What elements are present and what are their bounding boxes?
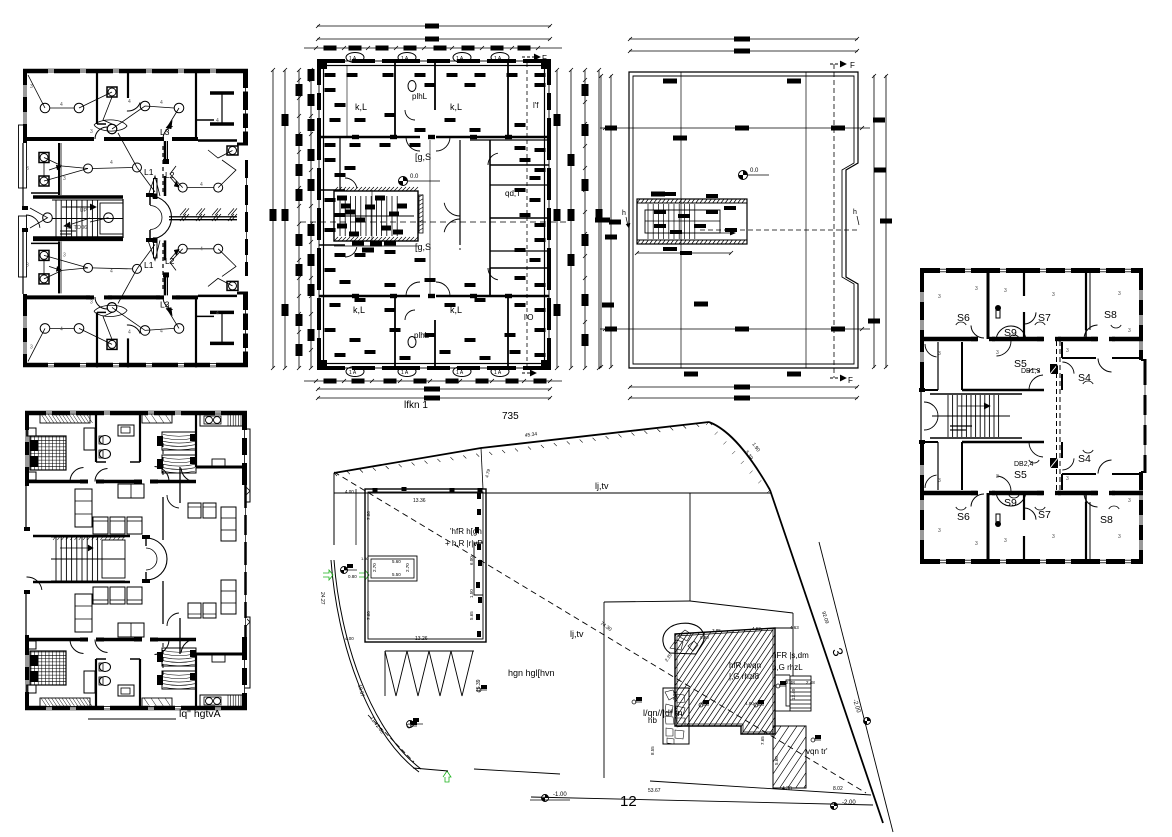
caption underline [88,718,176,720]
stairs plan C treads [648,204,695,239]
site boundary top-right curve [709,422,770,490]
stair mid rail [52,218,123,220]
door arc S5 entry [1029,442,1043,457]
svg-text:1 A: 1 A [456,370,464,376]
top dimension lines plan C [629,38,858,40]
S5 room walls [961,442,963,490]
wall: right connector lower [237,292,248,295]
benchmark right road [864,718,871,725]
landing double lines [60,230,76,232]
stairs plan B enclosure [334,191,418,241]
balcony right lower plan E [245,617,250,688]
wardrobe bed2 room [142,698,172,707]
svg-text:3: 3 [1118,291,1121,297]
door arc S4 [1098,460,1112,474]
door arc right room entry [163,297,173,310]
wire to hall [118,269,137,304]
wall: band horizontal thick lower [920,491,978,496]
top band lights [40,324,50,334]
entry jambs [919,388,925,392]
stair flight borders [52,199,123,201]
svg-text:3: 3 [63,176,66,182]
wall: right rooms mid [490,164,549,166]
wall: corridor horizontal mid-left [319,189,345,191]
svg-text:3: 3 [63,252,66,258]
stair treads plan D [948,395,999,437]
wall: plan A left middle balcony [22,143,24,209]
entry lobby wires [30,208,48,228]
svg-text:3: 3 [1128,498,1131,504]
right rooms wiring [187,187,214,189]
svg-text:S4: S4 [1078,453,1091,465]
A-mark right wall lower [246,618,250,626]
wall: horizontal main upper [25,480,84,484]
svg-text:2.48: 2.48 [806,680,815,685]
mushroom entry lobby center [150,196,172,239]
wall: plan D left entry thin [920,390,922,442]
right apt sofa at wall [221,580,236,614]
L2 wire arrow [170,252,176,259]
svg-text:1 A: 1 A [456,56,464,62]
wall: plan D outer left lower [920,442,924,564]
svg-text:|,G rhzl8: |,G rhzl8 [729,672,760,681]
bath furniture: vanity [84,428,95,450]
left small room mid [920,441,938,443]
living: L-sofa left [75,489,92,527]
svg-text:3: 3 [1052,292,1055,298]
svg-text:3: 3 [1128,328,1131,334]
wall: plan E outer right lower [242,637,247,710]
far right small fixture [227,146,238,155]
svg-text:nFR |s,dm: nFR |s,dm [772,651,809,660]
svg-text:UP: UP [80,208,88,214]
green arrow left 2 [359,570,369,580]
window ellipses above top wall [346,53,364,63]
door arc S7 [1024,508,1036,520]
door arc bath [95,297,107,309]
door arc S6 [971,494,984,507]
bottom small line left [413,768,448,771]
arrow into balcony [49,266,58,269]
site boundary right road edge thick [770,490,804,590]
svg-text:4.30: 4.30 [782,786,792,792]
svg-text:53.67: 53.67 [648,788,661,794]
svg-text:F: F [850,61,855,70]
bedside tables [27,685,36,693]
wall: right apt horizontal [196,466,247,469]
left dimension lines [272,70,274,368]
window slits left upper [25,430,29,442]
black jamb right hall [163,272,169,277]
wall: plan B outer [319,61,549,368]
DB distribution box [1050,458,1058,468]
svg-text:1 A: 1 A [401,370,409,376]
bed pillows black [30,655,38,666]
partition S6|S9 [987,268,990,339]
svg-text:3: 3 [26,262,29,268]
svg-text:1 A: 1 A [349,56,357,62]
svg-text:[g,S: [g,S [415,242,431,252]
wiring squares middle-left [39,153,49,163]
svg-text:4: 4 [216,118,219,124]
kitchen counter [200,414,243,426]
right apartment hall wall vertical [164,276,167,295]
svg-text:4: 4 [160,328,163,334]
right apt: dining chairs 2x2 [188,503,201,518]
partition bedroom2|right rooms [195,297,197,367]
svg-text:7.60: 7.60 [366,611,371,620]
wall: plan A outer right lower [243,292,248,367]
door arc S9 pair (mushroom down) [996,326,1026,341]
stair enclosure side [122,199,124,238]
stairs plan B treads [340,196,397,236]
left entry arc plan E [27,577,42,590]
svg-text:plhL: plhL [412,92,428,101]
benchmark symbol 0.0 [399,177,408,186]
wall: interior horizontal lower [319,295,420,298]
bottom dimension line 1 [317,388,551,390]
stairs plan C inner walls [645,210,720,233]
stair hall bottom wall [33,236,123,240]
svg-text:F: F [848,376,853,385]
stairs plan C enclosure [637,199,747,244]
svg-text:4: 4 [200,246,203,252]
grid blobs [663,79,677,84]
bath wiring loop [94,120,127,131]
bed pillows black [30,440,38,451]
toilet fixtures [408,81,416,92]
svg-text:1 A: 1 A [494,370,502,376]
light circles middle band [84,164,93,173]
door arc S4 inner [1062,362,1074,374]
partition bath|bedroom2 [127,338,129,367]
jambs on main wall [80,480,88,484]
L1 wires fan [148,176,160,196]
svg-text:5.65: 5.65 [469,611,474,620]
svg-text:2.29: 2.29 [672,691,677,700]
right dim blobs [554,114,561,126]
door arc S9 pair (mushroom down) [996,491,1026,506]
top dimension line 1 [317,25,551,27]
right apt: dining chairs 2x2 [188,603,201,618]
grid line vertical 1 [680,72,682,368]
svg-text:5.60: 5.60 [392,559,401,564]
wall: band horizontal thick upper [920,337,978,342]
benchmark symbol 0.0 plan C [739,171,748,180]
left dim blobs plan C [598,218,610,223]
svg-text:hgn hgl[hvn: hgn hgl[hvn [508,668,555,678]
mushroom inner arcs [150,206,162,218]
svg-text:3.85: 3.85 [712,628,721,633]
single beds hatched [162,671,196,689]
svg-text:S9: S9 [1004,327,1017,339]
svg-text:lj,tv: lj,tv [570,629,584,639]
leader arrows with hooks [956,322,966,325]
wall: plan C outline outer [629,72,858,368]
partition bed2|kitchen [195,654,197,710]
stair left lobby curve [924,402,938,416]
living: seat row of 3 [93,517,108,534]
right room divider [196,119,214,121]
svg-text:3: 3 [938,351,941,357]
svg-text:1 A: 1 A [494,56,502,62]
window slits plan B outer [345,59,352,63]
bath furniture: vanity [84,671,95,693]
svg-text:4: 4 [60,102,63,108]
right apt small table [212,654,225,662]
stairs right hatch strip [419,195,423,233]
partition bath|bed2 [139,411,141,462]
grid line horizontal 2 [600,328,870,330]
F marker top right plan C [830,63,840,65]
stair mid rail plan E [51,558,125,560]
S4 horizontal wall [1062,357,1096,359]
construction thin verticals [346,65,348,137]
wires from squares to lights [44,268,88,279]
building dim marks right side [477,493,481,499]
wall: stair hall top [33,195,123,199]
svg-text:0.90: 0.90 [700,635,709,640]
svg-text:S9: S9 [1004,497,1017,509]
S4 corridor wall vertical [1061,474,1063,490]
stair treads plan E [56,537,98,581]
sink counter bath [118,685,134,696]
wall: stair hall top [33,238,123,242]
right rooms lights [178,244,187,253]
wall: plan B outer inner face [324,66,545,364]
right rooms lights [178,183,187,192]
svg-text:L2 TO06: L2 TO06 [66,225,87,231]
corridor door arc right apt [167,495,179,508]
svg-text:L1: L1 [144,167,154,177]
second dashed short [368,715,414,762]
partition bedroom|bath [95,411,97,462]
stairs plan B black bits [337,196,347,201]
left entry jambs [24,527,30,531]
svg-text:12: 12 [620,793,637,810]
svg-text:2.70: 2.70 [405,563,410,572]
svg-text:'hfR h[gn: 'hfR h[gn [450,527,482,536]
right building lower hatched strip [773,726,806,788]
black jamb right hall [163,159,169,164]
left balcony box upper [19,125,27,188]
wall: plan D outer left upper [920,268,924,390]
svg-text:13.26: 13.26 [415,636,428,642]
wardrobe I-symbol right room [210,342,234,346]
wire hall diagonal [137,168,155,193]
door arc right room entry [163,126,173,139]
wires from squares to lights [44,158,88,169]
wall: top rooms divider right [507,61,509,137]
svg-text:0.0: 0.0 [410,174,419,180]
bedroom door arcs [70,640,84,654]
svg-text:3: 3 [996,474,999,480]
toilet ellipses [100,436,111,445]
hall walls around stairs [33,535,130,538]
interior blob mid [706,194,718,198]
A-mark right wall upper [246,487,250,495]
living: seat row of 3 [93,587,108,604]
mid lot subdivision lines [689,493,691,601]
dashed axis horizontal through stairs [700,229,860,231]
bottom dim blob row [304,380,562,382]
door arc bedroom2 [127,102,140,111]
dashed section line right [526,63,528,366]
svg-text:7.86: 7.86 [366,511,371,520]
site boundary left vertical [333,473,335,545]
wall: plan D outer right upper [1139,268,1143,360]
top dimension line 2 [317,38,551,40]
door arc S7 [1024,312,1036,324]
svg-text:vqn tr': vqn tr' [806,747,828,756]
wall: plan A outer top [23,69,248,74]
svg-text:[g,S: [g,S [415,152,431,162]
svg-text:4.80: 4.80 [745,701,754,706]
stair = sign [950,425,972,427]
door arc S8 [1084,325,1098,339]
interior blob top-left [651,192,665,197]
svg-text:L1: L1 [144,260,154,270]
wall: interior horizontal upper (below k,L rooms) [319,136,420,139]
corridor door arc right apt [167,613,179,626]
top dim blob row [324,46,337,51]
svg-text:4.62: 4.62 [752,626,761,631]
entry lobby mushroom plan E [146,538,167,580]
wall: bath partitions bottom [394,296,396,368]
svg-text:F: F [542,54,547,63]
wall: plan A outer right upper [243,69,248,145]
partition bath|bed2 [139,659,141,710]
left dimension lines plan C [600,75,602,368]
wall: balcony room bottom [31,192,59,194]
bed head black blocks [157,675,163,685]
stairs plan B hatched side walls [334,187,418,241]
bath inner wall stub [97,123,106,125]
partition bedroom2|right rooms [195,69,197,139]
svg-text:3: 3 [938,478,941,484]
partition S7|S8 double [1085,502,1087,564]
window slits top wall [46,411,52,416]
svg-text:4: 4 [128,99,131,105]
stair lower light [104,213,114,223]
svg-text:3: 3 [1004,288,1007,294]
wall: right connector upper [237,143,248,146]
mushroom flat wall [149,196,151,205]
center dashed axis lower [162,243,164,291]
window slits bottom wall [48,363,54,368]
window slits left upper [920,292,924,302]
svg-text:lfkn 1: lfkn 1 [404,400,428,411]
svg-text:lq" hgtvA: lq" hgtvA [179,708,221,720]
black jambs on main wall [86,137,94,141]
partition S9|S7 lower stub [1023,312,1025,339]
left dim blobs [282,114,289,126]
wire L3 arrow [168,310,179,328]
wire middle band long [92,268,132,269]
green arrow left 1 [323,570,333,580]
rail ticks [180,214,237,221]
svg-text:3: 3 [1052,534,1055,540]
right building mid-right connector walls [775,674,790,676]
svg-text:4.00: 4.00 [345,489,354,494]
right building stairs block [790,676,811,711]
svg-text:4: 4 [110,160,113,166]
rubble stones in blob [670,630,698,651]
wall: plan D outer top [920,268,1143,273]
svg-text:3: 3 [1004,538,1007,544]
F marker bottom right [522,372,530,374]
svg-text:4: 4 [160,100,163,106]
dim under stairs [637,252,731,254]
svg-text:6.00: 6.00 [469,556,474,565]
wall: plan E outer right upper [242,411,247,485]
S4 horizontal wall [1062,473,1096,475]
living: coffee table pair [118,623,144,637]
svg-text:l'O: l'O [524,313,534,322]
svg-text:L3: L3 [160,127,170,137]
stair landing rect plan E [102,540,125,578]
main dashed diagonal [334,472,866,793]
dashed section vertical [833,64,835,378]
rail ticks [180,208,237,215]
svg-text:-1.00: -1.00 [553,792,567,798]
svg-text:4: 4 [200,182,203,188]
wall: mid verticals [339,137,341,190]
site boundary top edge [334,422,709,473]
wall: right rooms mid lower [490,267,549,269]
wardrobe strip top-left room [40,698,90,707]
wall: plan A outer bottom [23,363,248,368]
svg-text:7.65: 7.65 [760,736,765,745]
svg-text:0.80: 0.80 [348,574,357,579]
svg-text:4: 4 [216,310,219,316]
top band lights [40,103,50,113]
L2 wire arrow [170,177,176,184]
rail wall right rooms with ticks [169,216,237,218]
right building top-left rubble blob [663,623,704,654]
wall: middle-left balcony room [58,143,60,195]
svg-text:8.55: 8.55 [650,746,655,755]
svg-text:1.50: 1.50 [469,589,474,598]
stair UP arrow [62,206,90,208]
svg-text:4.63: 4.63 [790,625,799,630]
svg-text:13.36: 13.36 [413,498,426,504]
L1 wires fan [148,240,160,260]
svg-text:k,L: k,L [450,102,462,112]
jambs band wall [971,337,977,341]
center dashed axis upper [162,146,164,193]
svg-text:3: 3 [996,350,999,356]
door arc S6 [971,326,984,339]
bed head black blocks [157,652,163,662]
right apt sofa at wall [221,507,236,541]
right building hatched main [675,628,775,734]
light circles middle band [84,263,93,272]
door arc left mid room [925,475,937,488]
wall: plan E left middle thin [25,486,27,530]
wall: plan D outer bottom [920,559,1143,564]
door arc S5 entry [1029,375,1043,390]
left entry jambs [22,206,28,210]
sink counter bath [118,425,134,436]
right apt small table [212,459,225,467]
svg-text:L3: L3 [160,299,170,309]
bath door arc [95,640,108,653]
single beds hatched [162,432,196,450]
double bed hatched [30,651,66,685]
stairs plan C hatch top [637,199,745,244]
svg-text:l'f: l'f [533,101,539,110]
